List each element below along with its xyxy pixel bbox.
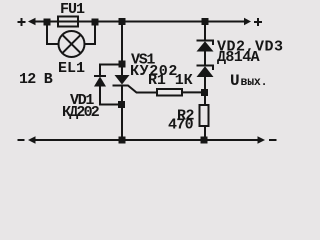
node junction R1 R2 bbox=[201, 89, 208, 96]
svg-text:Д814А: Д814А bbox=[217, 49, 260, 66]
node junction VS1 gate split bbox=[119, 61, 126, 68]
zener VD2 cathode bar bbox=[197, 41, 214, 46]
wire R1 to node bbox=[182, 91, 205, 93]
node junction top B bbox=[92, 19, 99, 26]
thyristor VS1 triangle bbox=[115, 75, 130, 85]
node junction bottom VS1 bbox=[119, 137, 126, 144]
svg-text:FU1: FU1 bbox=[60, 1, 85, 18]
svg-text:вых.: вых. bbox=[241, 76, 268, 89]
svg-text:12 В: 12 В bbox=[19, 71, 53, 88]
node junction top D bbox=[202, 18, 209, 25]
resistor R1 bbox=[157, 89, 182, 96]
svg-text:470: 470 bbox=[168, 117, 194, 134]
svg-text:КД202: КД202 bbox=[62, 104, 100, 121]
fuse FU1 bbox=[58, 17, 78, 27]
diode VD1 triangle bbox=[94, 77, 106, 87]
wire VD1 branch top bbox=[100, 65, 122, 76]
zener VD2 triangle bbox=[197, 41, 214, 51]
node junction top A bbox=[44, 19, 51, 26]
node junction bottom R2 bbox=[201, 137, 208, 144]
wire lamp branch right bbox=[84, 22, 95, 44]
plus sign top right bbox=[254, 21, 262, 23]
wire VD1 branch bottom bbox=[100, 87, 122, 105]
wire gate to R1 bbox=[128, 86, 157, 93]
terminal arrow top right bbox=[244, 18, 251, 25]
plus sign top left bbox=[18, 21, 26, 23]
node junction top C bbox=[119, 18, 126, 25]
wire between VD2 VD3 bbox=[204, 52, 206, 66]
node junction VD1 bottom bbox=[118, 101, 125, 108]
zener VD3 triangle bbox=[197, 66, 214, 77]
wire VD3 to node bbox=[204, 77, 206, 105]
svg-text:U: U bbox=[230, 72, 240, 90]
wire VS1 to bottom bbox=[121, 87, 123, 141]
wire zener branch top bbox=[204, 22, 206, 41]
diode VD1 cathode bar bbox=[94, 75, 106, 77]
wire R2 to bottom rail bbox=[204, 126, 206, 140]
svg-text:R1 1К: R1 1К bbox=[148, 72, 193, 89]
minus sign bottom left bbox=[18, 139, 25, 141]
terminal arrow top left bbox=[28, 18, 36, 25]
lamp EL1 bbox=[59, 31, 85, 57]
resistor R2 bbox=[200, 105, 209, 126]
wire VS1 branch vertical bbox=[121, 22, 123, 75]
wire bottom rail bbox=[34, 139, 258, 141]
wire top rail bbox=[34, 21, 246, 23]
minus sign bottom right bbox=[269, 139, 277, 141]
svg-text:EL1: EL1 bbox=[58, 60, 85, 77]
terminal arrow bottom right bbox=[258, 136, 266, 143]
zener VD3 cathode bar bbox=[197, 66, 214, 71]
thyristor VS1 cathode bar bbox=[113, 85, 129, 87]
wire lamp branch left bbox=[47, 22, 59, 44]
terminal arrow bottom left bbox=[28, 136, 36, 143]
